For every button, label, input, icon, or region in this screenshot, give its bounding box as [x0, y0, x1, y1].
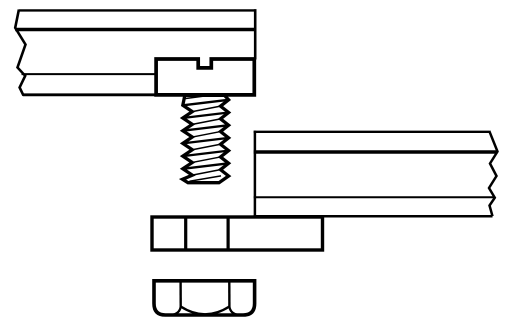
shank outline with thread sawtooth [183, 95, 229, 182]
wire: upper rail thick line [15, 28, 256, 32]
wire: lower rail thin line [254, 196, 495, 198]
upper rail (broken left end) [15, 9, 256, 95]
break line: lower rail right zigzag [489, 131, 498, 216]
nut centre chamfer arc [181, 307, 230, 315]
wire: upper rail right edge [254, 9, 257, 59]
hex nut [154, 281, 255, 315]
nut left facet line [179, 282, 181, 307]
lower rail (broken right end) [254, 131, 498, 217]
wire: lower rail bottom line [254, 215, 493, 218]
washer divider 2 [227, 217, 230, 250]
nut right bottom fillet [229, 307, 238, 315]
washer divider 1 [184, 217, 187, 250]
wire: lower rail top line [254, 131, 490, 133]
threaded screw shank [183, 95, 229, 183]
thread crest lines (thick) [183, 100, 229, 169]
slotted screw head (slot nut block) [156, 59, 254, 95]
break line: upper rail left zigzag [15, 10, 25, 96]
nut outer profile [154, 281, 255, 315]
thread root lines (thin) [185, 95, 221, 182]
wire: lower rail thick line [254, 150, 498, 154]
spacer washer plate [152, 217, 323, 250]
wire: upper rail bottom line [23, 93, 157, 96]
washer outline [152, 217, 323, 250]
nut right facet line [228, 282, 230, 307]
wire: upper rail top line [19, 9, 257, 11]
wire: lower rail left edge [254, 131, 257, 217]
wire: upper rail thin line [22, 73, 158, 75]
nut left bottom fillet [172, 307, 181, 315]
